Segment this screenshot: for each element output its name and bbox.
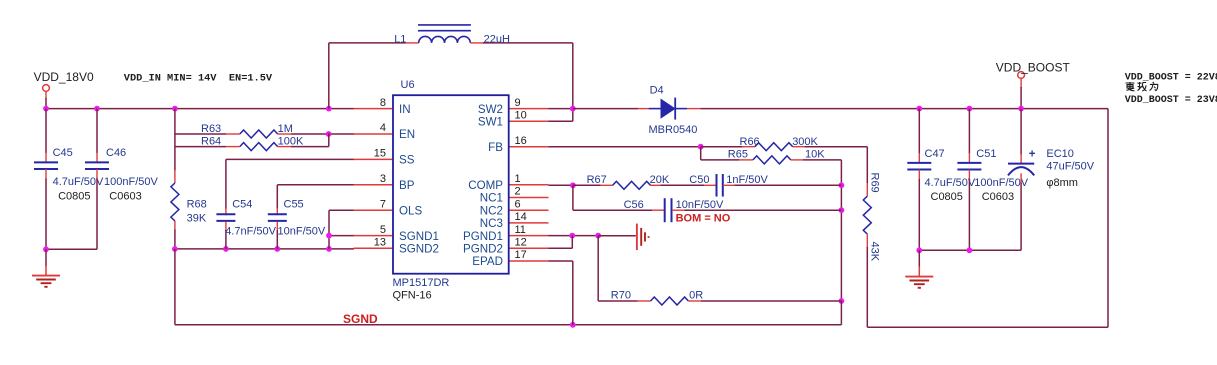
capacitor C54 bbox=[216, 213, 235, 215]
capacitor C56 bbox=[664, 198, 666, 222]
wire divider to SGND rail bbox=[840, 301, 842, 325]
wire L1 left lead bbox=[405, 42, 418, 44]
U6 pin 5 stub bbox=[354, 235, 393, 237]
wire COMP to R67 bbox=[573, 184, 601, 186]
wire R64 left lead bbox=[175, 146, 226, 148]
wire C45-C46 ground link bbox=[46, 248, 97, 250]
svg-text:MBR0540: MBR0540 bbox=[649, 124, 698, 136]
wire R66 left lead bbox=[701, 146, 743, 148]
wire C50 to divider bbox=[735, 184, 842, 186]
node junction C56 right bbox=[839, 207, 845, 213]
wire SGND bottom rail bbox=[175, 324, 842, 326]
ground symbol output bbox=[918, 250, 920, 267]
wire C51 top lead bbox=[968, 109, 970, 154]
wire FB pin16 net bbox=[549, 146, 701, 148]
U6 pin 10 stub bbox=[509, 120, 549, 122]
wire SGND2 pin13 net bbox=[175, 248, 354, 250]
svg-text:100K: 100K bbox=[278, 136, 304, 148]
svg-text:R70: R70 bbox=[611, 290, 631, 302]
svg-text:VDD_IN MIN= 14V EN=1.5V: VDD_IN MIN= 14V EN=1.5V bbox=[124, 72, 273, 84]
U6 pin 7 stub bbox=[354, 209, 393, 211]
svg-text:47uF/50V: 47uF/50V bbox=[1046, 160, 1094, 172]
wire R67 to C50 bbox=[660, 184, 704, 186]
svg-text:1: 1 bbox=[515, 173, 521, 185]
wire SW1 pin10 net bbox=[549, 120, 573, 122]
capacitor C47 bbox=[907, 162, 931, 164]
wire C47 bottom lead bbox=[918, 170, 920, 181]
wire R65 branch down bbox=[700, 147, 702, 160]
wire EN divider vertical bbox=[174, 109, 176, 171]
U6 pin 2 stub bbox=[509, 197, 549, 199]
svg-text:22uH: 22uH bbox=[484, 34, 510, 46]
wire R67 left lead bbox=[601, 184, 613, 186]
node VDD rail junction at C45 bbox=[43, 106, 49, 112]
svg-text:2: 2 bbox=[515, 186, 521, 198]
U6 pin 17 stub bbox=[509, 260, 549, 262]
svg-text:15: 15 bbox=[374, 148, 386, 160]
svg-text:NC3: NC3 bbox=[480, 217, 503, 230]
wire COMP pin1 net bbox=[549, 184, 573, 186]
node junction R68/SGND bbox=[172, 246, 178, 252]
svg-text:17: 17 bbox=[515, 249, 527, 261]
wire R63 right lead bbox=[278, 133, 291, 135]
resistor R63 bbox=[240, 130, 278, 138]
wire R65 left lead bbox=[701, 159, 739, 161]
svg-text:U6: U6 bbox=[401, 79, 415, 91]
wire C54 bottom lead bbox=[225, 221, 227, 231]
svg-text:VDD_BOOST = 23V8: VDD_BOOST = 23V8 bbox=[1125, 95, 1217, 106]
svg-text:IN: IN bbox=[399, 103, 411, 116]
U6 pin 6 stub bbox=[509, 209, 549, 211]
svg-text:BP: BP bbox=[399, 179, 415, 192]
op-amp U6 MP1517DR body bbox=[393, 95, 509, 274]
node junction C54/SGND bbox=[223, 246, 229, 252]
U6 pin 1 stub bbox=[509, 184, 549, 186]
U6 pin 11 stub bbox=[509, 235, 549, 237]
svg-text:C47: C47 bbox=[925, 148, 945, 160]
note Chinese: change to bbox=[1126, 82, 1158, 91]
U6 pin 9 stub bbox=[509, 108, 549, 110]
node COMP junction bbox=[570, 182, 576, 188]
svg-text:6: 6 bbox=[515, 198, 521, 210]
svg-text:φ8mm: φ8mm bbox=[1046, 177, 1078, 189]
capacitor EC10 (polarized) bbox=[1008, 163, 1034, 165]
U6 pin 14 stub bbox=[509, 222, 549, 224]
svg-text:VDD_BOOST: VDD_BOOST bbox=[996, 61, 1071, 75]
svg-text:R68: R68 bbox=[187, 199, 207, 211]
wire EC10 top lead bbox=[1020, 109, 1022, 155]
svg-text:C46: C46 bbox=[106, 147, 126, 159]
node VDD rail junction at C46 bbox=[94, 106, 100, 112]
svg-text:4.7uF/50V: 4.7uF/50V bbox=[925, 177, 976, 189]
wire R68 top lead bbox=[174, 170, 176, 183]
svg-text:C45: C45 bbox=[53, 147, 73, 159]
capacitor C50 bbox=[716, 174, 718, 197]
svg-text:PGND1: PGND1 bbox=[463, 230, 503, 243]
svg-text:MP1517DR: MP1517DR bbox=[393, 277, 450, 289]
wire EPAD pin17 net bbox=[549, 260, 573, 262]
svg-text:C0603: C0603 bbox=[982, 191, 1014, 203]
svg-text:8: 8 bbox=[380, 97, 386, 109]
wire R66 to R69 bbox=[866, 147, 868, 184]
resistor R68 bbox=[171, 183, 179, 221]
node VDD rail junction at EN divider bbox=[172, 106, 178, 112]
wire C50 left lead bbox=[704, 184, 716, 186]
svg-text:C55: C55 bbox=[284, 199, 304, 211]
wire R64 to EN node bbox=[328, 133, 330, 146]
U6 pin 13 stub bbox=[354, 247, 393, 249]
svg-text:C0805: C0805 bbox=[58, 191, 90, 203]
resistor R66 bbox=[755, 143, 793, 151]
svg-text:10K: 10K bbox=[805, 149, 825, 161]
wire C50 right lead bbox=[723, 184, 735, 186]
wire R70 to divider node bbox=[701, 300, 841, 302]
svg-text:C51: C51 bbox=[976, 148, 996, 160]
svg-text:L1: L1 bbox=[394, 34, 406, 46]
svg-text:5: 5 bbox=[380, 224, 386, 236]
resistor R70 bbox=[651, 297, 689, 305]
wire OLS pin7 net bbox=[329, 209, 354, 211]
node junction C47 ground bbox=[916, 247, 922, 253]
svg-text:D4: D4 bbox=[650, 85, 664, 97]
svg-text:FB: FB bbox=[488, 141, 503, 154]
svg-text:4: 4 bbox=[380, 122, 386, 134]
svg-text:1M: 1M bbox=[278, 123, 293, 135]
wire L1 branch up bbox=[328, 43, 330, 109]
U6 pin 12 stub bbox=[509, 247, 549, 249]
node junction EPAD/SGND rail bbox=[570, 322, 576, 328]
wire C55 bottom lead bbox=[276, 221, 278, 231]
svg-text:9: 9 bbox=[515, 97, 521, 109]
wire C56 left lead bbox=[652, 209, 664, 211]
svg-text:300K: 300K bbox=[792, 136, 818, 148]
diode D4 MBR0540 bbox=[649, 108, 661, 110]
svg-text:1nF/50V: 1nF/50V bbox=[726, 174, 768, 186]
wire EC10 bottom lead bbox=[1020, 173, 1022, 184]
node junction C50 right bbox=[839, 182, 845, 188]
node EN junction bbox=[326, 131, 332, 137]
wire R69 bottom lead bbox=[866, 234, 868, 248]
wire SGND1 pin5 net bbox=[329, 235, 354, 237]
wire PGND down to R70 bbox=[597, 236, 599, 301]
svg-text:20K: 20K bbox=[650, 174, 670, 186]
svg-text:NC2: NC2 bbox=[480, 204, 503, 217]
svg-text:R69: R69 bbox=[869, 173, 881, 193]
U6 pin 15 stub bbox=[354, 158, 393, 160]
svg-text:EPAD: EPAD bbox=[472, 255, 503, 268]
node junction C51 ground bbox=[967, 247, 973, 253]
svg-text:12: 12 bbox=[515, 237, 527, 249]
U6 pin 16 stub bbox=[509, 146, 549, 148]
svg-text:7: 7 bbox=[380, 198, 386, 210]
svg-text:COMP: COMP bbox=[468, 179, 503, 192]
wire R66 right lead bbox=[793, 146, 805, 148]
resistor R67 bbox=[613, 181, 651, 189]
U6 pin 4 stub bbox=[354, 133, 393, 135]
wire R63 left lead bbox=[175, 133, 226, 135]
wire C46 top lead bbox=[96, 109, 98, 153]
svg-text:VDD_BOOST = 22V8: VDD_BOOST = 22V8 bbox=[1125, 73, 1217, 84]
svg-text:16: 16 bbox=[515, 135, 527, 147]
capacitor C51 bbox=[957, 162, 981, 164]
wire R67 right lead bbox=[650, 184, 660, 186]
wire C56 left net bbox=[573, 209, 652, 211]
wire C56 to divider bbox=[684, 209, 841, 211]
svg-text:R63: R63 bbox=[201, 123, 221, 135]
wire C45 bottom lead bbox=[45, 169, 47, 180]
wire R70 left net bbox=[598, 300, 638, 302]
capacitor C45 bbox=[34, 161, 58, 163]
svg-text:SGND2: SGND2 bbox=[399, 243, 439, 256]
node VDD rail junction at L1 branch bbox=[326, 106, 332, 112]
wire C45 top lead bbox=[45, 109, 47, 153]
wire SW to D4 anode bbox=[573, 108, 638, 110]
svg-text:R67: R67 bbox=[587, 174, 607, 186]
svg-text:VDD_18V0: VDD_18V0 bbox=[34, 70, 94, 84]
svg-text:EC10: EC10 bbox=[1046, 148, 1074, 160]
wire C56 right lead bbox=[672, 209, 684, 211]
wire output bottom return bbox=[867, 326, 1108, 328]
svg-text:C54: C54 bbox=[232, 199, 252, 211]
wire COMP down to C56 bbox=[572, 185, 574, 210]
node SW junction bbox=[570, 106, 576, 112]
svg-text:SGND: SGND bbox=[343, 312, 378, 326]
node junction C55/SGND bbox=[274, 246, 280, 252]
power symbol VDD_BOOST bbox=[1018, 72, 1025, 79]
svg-text:OLS: OLS bbox=[399, 204, 422, 217]
node ground junction C45 bbox=[43, 246, 49, 252]
wire R69 to bottom return bbox=[866, 247, 868, 327]
U6 pin 3 stub bbox=[354, 184, 393, 186]
svg-text:R65: R65 bbox=[728, 149, 748, 161]
wire R70 right lead bbox=[688, 300, 701, 302]
svg-text:C0805: C0805 bbox=[931, 191, 963, 203]
svg-text:SW2: SW2 bbox=[478, 103, 503, 116]
svg-text:C0603: C0603 bbox=[109, 191, 141, 203]
wire PGND to ground symbol bbox=[598, 235, 636, 237]
wire top rail right bbox=[483, 42, 573, 44]
node junction VDD_BOOST/EC10 bbox=[1018, 106, 1024, 112]
svg-text:43K: 43K bbox=[869, 242, 881, 262]
resistor R65 bbox=[753, 156, 791, 164]
wire output caps ground link bbox=[919, 249, 1021, 251]
wire D4 anode lead bbox=[638, 108, 649, 110]
wire PGND2 pin12 net bbox=[549, 247, 573, 249]
wire VDD_18V0 rail bbox=[46, 108, 354, 110]
node PGND junction 1 bbox=[569, 233, 575, 239]
wire output right drop bbox=[1107, 109, 1109, 328]
svg-text:+: + bbox=[1029, 148, 1036, 160]
node junction C47 bbox=[916, 106, 922, 112]
svg-text:13: 13 bbox=[374, 237, 386, 249]
svg-text:4.7nF/50V: 4.7nF/50V bbox=[225, 225, 276, 237]
node junction C51 bbox=[967, 106, 973, 112]
wire VDD_BOOST rail bbox=[701, 108, 1109, 110]
capacitor C55 bbox=[268, 213, 287, 215]
ground symbol AGND input bbox=[45, 249, 47, 266]
resistor R64 bbox=[240, 143, 278, 151]
svg-text:NC1: NC1 bbox=[480, 192, 503, 205]
node PGND junction 2 bbox=[595, 233, 601, 239]
svg-text:0R: 0R bbox=[689, 290, 703, 302]
svg-text:10nF/50V: 10nF/50V bbox=[676, 199, 724, 211]
inductor L1 bbox=[419, 36, 471, 42]
svg-text:14: 14 bbox=[515, 211, 527, 223]
wire R65 down to C50 node bbox=[840, 160, 842, 301]
svg-text:SGND1: SGND1 bbox=[399, 230, 439, 243]
svg-text:100nF/50V: 100nF/50V bbox=[104, 176, 158, 188]
wire C54 top lead (SS) bbox=[226, 158, 354, 160]
svg-text:QFN-16: QFN-16 bbox=[393, 289, 432, 301]
wire C51 bottom lead bbox=[968, 170, 970, 181]
resistor R69 bbox=[863, 196, 871, 234]
wire C55 top lead (BP) bbox=[277, 184, 354, 186]
wire D4 cathode lead bbox=[687, 108, 701, 110]
node FB junction bbox=[698, 144, 704, 150]
power symbol VDD_18V0 bbox=[43, 85, 50, 92]
wire PGND1 pin11 net bbox=[549, 235, 599, 237]
svg-text:C50: C50 bbox=[689, 174, 709, 186]
svg-text:R64: R64 bbox=[201, 136, 221, 148]
wire top rail left bbox=[329, 42, 406, 44]
ground symbol PGND (rotated) bbox=[636, 224, 638, 251]
wire R69 top lead bbox=[866, 183, 868, 196]
node junction OLS drop/SGND bbox=[326, 246, 332, 252]
wire SGND drop to rail bbox=[174, 249, 176, 325]
svg-text:10: 10 bbox=[515, 110, 527, 122]
svg-text:R66: R66 bbox=[740, 136, 760, 148]
wire R65 right lead bbox=[791, 159, 803, 161]
wire C46 bottom lead bbox=[96, 169, 98, 180]
svg-text:SS: SS bbox=[399, 154, 415, 167]
svg-text:10nF/50V: 10nF/50V bbox=[278, 225, 326, 237]
svg-text:3: 3 bbox=[380, 173, 386, 185]
svg-text:SW1: SW1 bbox=[478, 116, 503, 129]
svg-text:PGND2: PGND2 bbox=[463, 243, 503, 256]
wire R64 right lead bbox=[278, 146, 291, 148]
node junction R70 right bbox=[839, 298, 845, 304]
svg-text:BOM = NO: BOM = NO bbox=[676, 212, 731, 224]
svg-text:C56: C56 bbox=[624, 199, 644, 211]
wire R70 left lead bbox=[638, 300, 651, 302]
wire SW2 pin9 net bbox=[549, 108, 573, 110]
wire R68 bottom lead bbox=[174, 221, 176, 231]
node junction pin5/pin7 drop bbox=[326, 233, 332, 239]
svg-text:EN: EN bbox=[399, 128, 415, 141]
wire C47 top lead bbox=[918, 109, 920, 154]
U6 pin 8 stub bbox=[354, 108, 393, 110]
capacitor C46 bbox=[85, 161, 109, 163]
wire L1 right lead bbox=[470, 42, 483, 44]
svg-text:39K: 39K bbox=[187, 213, 207, 225]
svg-text:11: 11 bbox=[515, 224, 526, 236]
